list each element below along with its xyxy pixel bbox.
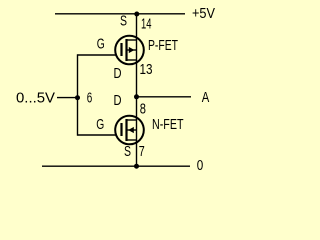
svg-text:G: G [96, 117, 104, 133]
transistor U2 N-FET body [115, 116, 144, 145]
svg-text:+5V: +5V [192, 6, 215, 22]
svg-text:N-FET: N-FET [152, 117, 184, 133]
svg-text:S: S [120, 13, 127, 29]
svg-text:7: 7 [139, 144, 145, 160]
wire output line to A [137, 96, 192, 98]
transistor U1 P-FET body [115, 36, 144, 65]
svg-text:0: 0 [197, 158, 204, 174]
svg-text:G: G [97, 36, 105, 52]
node junction dot input / gate bus [75, 95, 80, 100]
node junction dot output A [134, 94, 139, 99]
svg-text:P-FET: P-FET [148, 38, 178, 54]
wire P-FET gate lead [78, 54, 116, 56]
wire N-FET gate lead [78, 134, 117, 136]
wire 0V bottom rail [42, 165, 190, 167]
wire N-FET drain/source lead (pins 8,7) [136, 97, 138, 166]
node junction dot top rail / pin 14 [134, 12, 139, 17]
wire gate bus vertical [77, 54, 79, 135]
wire P-FET source lead (pin 14) [136, 14, 138, 97]
svg-text:13: 13 [140, 62, 153, 78]
node junction dot bottom rail / pin 7 [134, 164, 139, 169]
svg-text:S: S [124, 144, 131, 160]
svg-text:8: 8 [140, 102, 146, 118]
svg-text:D: D [114, 66, 122, 82]
wire +5V top rail [55, 13, 185, 15]
svg-text:6: 6 [87, 90, 93, 106]
svg-text:A: A [202, 90, 210, 106]
svg-text:0...5V: 0...5V [16, 90, 55, 106]
svg-text:14: 14 [141, 16, 152, 32]
svg-text:D: D [114, 93, 122, 109]
wire input line from 0...5V [57, 97, 78, 99]
